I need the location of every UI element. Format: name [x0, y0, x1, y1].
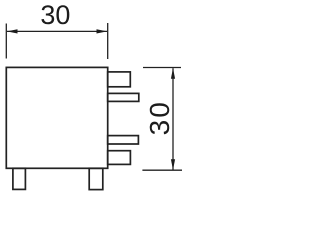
top dimension line	[7, 30, 107, 32]
mounting foot left	[13, 168, 26, 189]
mounting foot right	[89, 168, 103, 189]
relay body outline	[6, 67, 107, 168]
right dimension: top extension line	[143, 67, 181, 69]
top dimension left arrowhead	[7, 29, 18, 33]
terminal tab 1 (top flat pin)	[108, 72, 131, 87]
top dimension right arrowhead	[97, 29, 108, 33]
right dimension line	[172, 68, 174, 170]
right dimension top arrowhead	[171, 68, 175, 79]
top dimension: left extension line	[5, 24, 7, 59]
top dimension: right extension line	[107, 23, 109, 59]
terminal tab 4 (bottom flat pin)	[108, 151, 131, 165]
right dimension: bottom extension line	[142, 169, 182, 171]
right dimension bottom arrowhead	[171, 159, 175, 170]
svg-text:30: 30	[40, 0, 70, 30]
terminal tab 3 (thin pin)	[108, 136, 139, 144]
svg-text:30: 30	[144, 100, 175, 135]
terminal tab 2 (thin pin)	[108, 93, 139, 101]
